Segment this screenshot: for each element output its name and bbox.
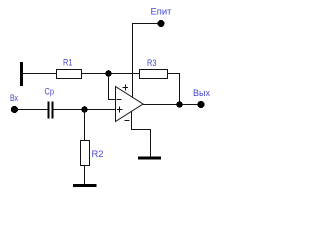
wire (R3 to output node): [168, 74, 180, 105]
node (output junction): [176, 101, 183, 108]
wire (node to R2): [84, 110, 86, 142]
node Вых terminal: [197, 101, 204, 108]
node Епит terminal: [158, 20, 165, 27]
pin mark + (positive supply): [123, 85, 129, 91]
resistor R2: [81, 141, 90, 166]
pin mark - (inverting input): [117, 99, 122, 101]
ground (under R2): [73, 184, 97, 187]
svg-text:R2: R2: [92, 149, 104, 159]
svg-text:Епит: Епит: [151, 6, 172, 16]
node (R2 junction): [81, 106, 88, 113]
wire (op-amp output): [143, 104, 201, 106]
wire (op-amp V- to ground): [132, 111, 151, 157]
pin mark + (non-inverting input): [117, 107, 123, 113]
svg-text:R1: R1: [63, 57, 73, 67]
wire (Вх to Cp): [15, 109, 48, 111]
resistor R3: [140, 70, 168, 79]
svg-text:Вх: Вх: [10, 93, 18, 103]
wire (R1 to R3, through inverting node): [82, 73, 140, 75]
op-amp U1: [116, 87, 144, 122]
svg-text:Вых: Вых: [193, 88, 210, 98]
ground (input common, left): [20, 62, 23, 86]
wire (ground to R1): [23, 73, 57, 75]
wire (Cp to non-inverting input): [54, 109, 116, 111]
node Вх terminal: [11, 106, 18, 113]
resistor R1: [57, 70, 82, 79]
svg-text:R3: R3: [147, 58, 157, 68]
wire (node to inverting input): [109, 74, 116, 100]
ground (op-amp supply): [138, 157, 161, 160]
svg-text:Cp: Cp: [45, 86, 55, 96]
wire (R2 to ground): [84, 166, 86, 186]
node (inverting input junction): [105, 70, 112, 77]
wire (Епит supply rail down to op-amp V+): [133, 24, 162, 98]
pin mark - (negative supply): [125, 120, 130, 122]
capacitor Cp: [48, 102, 54, 119]
